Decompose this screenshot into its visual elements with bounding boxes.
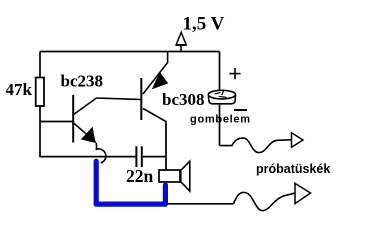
- wire emitter hook over bottom wire: [96, 143, 106, 163]
- minus sign: [234, 109, 247, 111]
- svg-text:bc308: bc308: [162, 90, 205, 109]
- svg-text:bc238: bc238: [61, 72, 104, 91]
- resistor R1 47k: [36, 78, 44, 107]
- wire bottom rail: [168, 203, 234, 205]
- capacitor C1 22n: [136, 146, 141, 167]
- probe tip arrow bottom: [295, 183, 311, 203]
- probe tip arrow top: [292, 133, 304, 148]
- wire left rail upper: [39, 52, 41, 79]
- supply marker 1,5V triangle: [176, 32, 187, 51]
- wire blue jumper: [96, 161, 165, 204]
- speaker LS1: [159, 161, 190, 191]
- svg-text:1,5 V: 1,5 V: [183, 14, 225, 35]
- svg-text:22n: 22n: [126, 166, 154, 186]
- wire Q2 collector down to speaker: [165, 121, 167, 170]
- wire wavy probe lead bottom: [234, 192, 295, 210]
- svg-text:gombelem: gombelem: [190, 114, 251, 126]
- wire left rail lower: [39, 106, 41, 157]
- plus sign: [229, 68, 240, 79]
- wire top rail: [40, 51, 220, 53]
- svg-text:próbatüskék: próbatüskék: [256, 162, 330, 176]
- wire Q1 collector to Q2 base: [97, 98, 142, 100]
- svg-text:47k: 47k: [6, 80, 33, 99]
- wire battery top: [219, 52, 221, 92]
- transistor Q2 bc308: [141, 52, 167, 122]
- wire wavy probe lead top: [220, 138, 292, 153]
- transistor Q1 bc238: [73, 95, 96, 143]
- wire base of Q1: [40, 121, 73, 123]
- wire battery down: [219, 104, 221, 146]
- battery B1 gombelem (button cell): [208, 90, 235, 104]
- wire capacitor to speaker node: [143, 156, 166, 158]
- wire middle rail with capacitor: [40, 156, 136, 158]
